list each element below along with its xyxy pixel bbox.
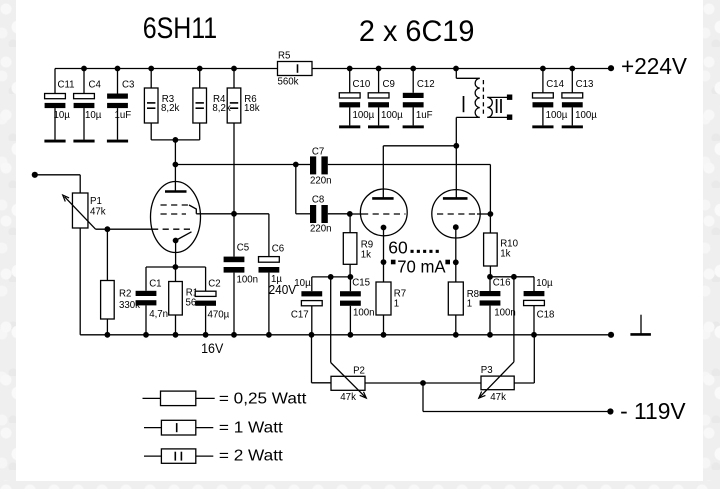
svg-text:= 0,25 Watt: = 0,25 Watt [219,390,307,407]
wire ground rail [80,334,611,336]
node rail R6 [231,66,237,72]
potentiometer P2 47k [331,376,365,390]
V3 cathode dot [453,224,459,230]
svg-text:C2: C2 [208,279,220,290]
svg-text:56: 56 [186,298,197,309]
capacitor C11 10u [54,69,56,94]
node rail C12 [410,66,416,72]
svg-text:P3: P3 [481,365,493,376]
capacitor C1 4,7n [145,267,147,291]
svg-text:16V: 16V [201,341,223,356]
svg-text:10µ: 10µ [294,278,311,289]
svg-text:C9: C9 [383,79,395,90]
node screen C5 [231,211,237,217]
wire C17 top to bias node A [311,277,313,291]
V1 cathode to grid1 diagonal [176,232,192,241]
svg-text:100µ: 100µ [575,110,597,121]
terminal input [32,172,38,178]
capacitor C12 1uF [412,69,414,93]
node gnd C17 [309,332,315,338]
wire grid B from C7 [477,213,490,215]
svg-text:C7: C7 [312,147,324,158]
tube V3 6C19 envelope [432,190,480,238]
svg-text:60: 60 [388,238,408,258]
V2 grid dashed [362,213,406,215]
resistor R2 330k [106,229,108,280]
node plates join [453,143,459,149]
svg-text:47k: 47k [90,207,106,218]
wire C7 out down to V3 grid [489,165,491,215]
capacitor C16 100n [489,277,491,291]
svg-text:100µ: 100µ [353,110,375,121]
V1 grid 2 dashed [161,213,187,215]
svg-text:1k: 1k [361,250,371,261]
transformer T1 primary lead from rail [455,69,457,79]
wire cathode bus C1 to C2 [146,266,206,268]
scan texture bottom edge [0,481,720,489]
legend 0,25 Watt resistor [143,397,161,399]
transformer T1 primary bottom lead [456,116,479,118]
svg-text:+224V: +224V [621,53,688,79]
terminal ground rail right [608,332,614,338]
V1 grid 3 dashed [161,204,192,206]
svg-text:47k: 47k [490,392,506,403]
node bias A C15 [348,274,354,280]
svg-text:470µ: 470µ [208,310,230,321]
svg-text:P2: P2 [353,366,365,377]
wire C7 C8 left tie [295,165,297,214]
svg-text:C1: C1 [149,279,161,290]
node P2 P3 junction [420,380,426,386]
wire V2 plate to V3 plate [383,145,456,147]
transformer T1 core dashed [482,80,484,117]
V1 cathode dot [173,238,179,244]
bullet 70mA right [445,260,450,265]
terminal secondary top [507,95,512,100]
svg-text:- 119V: - 119V [620,398,686,424]
node gnd C5 [231,332,237,338]
node gnd C15 [348,332,354,338]
node rail C3 [115,66,121,72]
svg-text:C12: C12 [417,79,435,90]
V2 plate bar [372,197,393,200]
tube V1 6SH11 envelope [151,182,201,253]
transformer T1 secondary top lead [487,96,509,98]
wire P1 wiper to V1 grid [96,228,152,230]
node gnd C2 [203,332,209,338]
capacitor C9 100u [378,69,380,93]
svg-text:C5: C5 [237,243,249,254]
P3 wiper from bias node B [513,277,515,362]
resistor R7 1 [376,282,391,315]
resistor R8 1 [448,282,463,315]
node gnd R8 [453,332,459,338]
svg-text:100µ: 100µ [381,110,403,121]
node gnd R7 [381,332,387,338]
V3 plate bar [443,197,468,200]
resistor R1 56 [175,267,177,282]
node gnd R1 [173,332,179,338]
node C7 C8 junction [293,162,299,168]
capacitor C13 100u [571,69,573,93]
svg-text:47k: 47k [340,392,356,403]
svg-text:8,2k: 8,2k [212,103,230,114]
capacitor C18 10u [533,277,535,291]
capacitor C17 10u [311,290,313,292]
svg-text:220n: 220n [310,176,332,187]
wire anode feed down to V1 plate [174,140,176,191]
capacitor C15 100n [349,277,351,291]
node bias A wiper tap [328,274,334,280]
resistor R6 18k 2W [233,69,235,89]
svg-text:2 x 6C19: 2 x 6C19 [359,15,475,48]
scan texture right edge [703,0,720,489]
V2 plate lead up [382,146,384,199]
capacitor C3 1uF [117,69,119,94]
node V2 cathode measure [381,259,387,265]
capacitor C4 10u [83,69,85,94]
svg-text:6SH11: 6SH11 [143,12,218,45]
svg-text:C4: C4 [89,80,102,91]
svg-text:R5: R5 [278,51,290,62]
wire gnd to P2 left [311,335,313,383]
resistor R4 8,2k 2W [199,69,201,89]
V2 cathode dot [381,225,387,231]
node R3R4 join [173,137,179,143]
wire R3 R4 bottom join [150,123,152,140]
V1 cathode lead down [175,241,177,268]
capacitor C8 220n [310,205,316,223]
wire +224V rail right section [312,68,611,70]
node V1 plate / coupling [173,162,179,168]
resistor R9 1k [349,214,351,233]
V1 grid 1 dashed [152,228,191,230]
svg-text:C3: C3 [122,80,134,91]
node gnd C18 P3 [531,332,537,338]
svg-text:560k: 560k [278,77,299,88]
node V2 grid [347,211,353,217]
node rail R4 [197,66,203,72]
svg-text:100n: 100n [353,308,375,319]
V1 screen bend to right [189,205,196,214]
potentiometer P3 47k [481,376,514,390]
wire P2 right to node [365,382,423,384]
terminal -119V [607,408,613,414]
svg-text:P1: P1 [90,196,102,207]
scan texture left edge [0,0,16,489]
svg-text:1uF: 1uF [416,110,433,121]
svg-text:70 mA: 70 mA [397,256,446,276]
svg-text:C6: C6 [272,244,284,255]
P2 wiper from bias node A [330,277,332,363]
wire input to P1 [35,174,80,176]
svg-text:100n: 100n [237,275,259,286]
legend 1 Watt resistor [144,427,161,429]
node gnd C6 [266,332,272,338]
svg-text:C16: C16 [493,278,511,289]
V3 grid dashed [437,213,477,215]
node rail C9 [376,66,382,72]
wire +224V rail left section [55,68,278,70]
tube V2 6C19 envelope [360,189,407,236]
node V3 grid [488,211,494,217]
svg-text:C8: C8 [312,195,324,206]
transformer T1 primary winding [475,78,480,117]
svg-text:220n: 220n [310,224,332,235]
legend 2 Watt resistor [144,455,161,457]
potentiometer P1 47k [72,193,88,228]
capacitor C10 100u [349,69,351,93]
resistor R3 8,2k 2W [150,69,152,89]
transformer T1 secondary bottom lead [487,116,509,118]
V3 cathode lead [455,227,457,282]
terminal secondary bottom [507,115,512,120]
node rail C13 [569,66,575,72]
svg-text:10µ: 10µ [536,278,553,289]
bullet 70mA left [391,260,396,265]
svg-text:= 2 Watt: = 2 Watt [219,448,283,465]
svg-text:C15: C15 [352,278,370,289]
svg-text:1: 1 [467,298,472,309]
node gnd C1 [143,332,149,338]
svg-text:C11: C11 [58,80,75,91]
svg-text:10µ: 10µ [85,110,102,121]
node bias B R10 [487,274,493,280]
node rail transformer [453,66,459,72]
capacitor C5 100n [233,214,235,257]
node rail R3 [148,66,154,72]
node bias B wiper tap [511,274,517,280]
transformer T1 secondary winding [487,97,492,117]
svg-text:10µ: 10µ [54,110,71,121]
svg-text:8,2k: 8,2k [161,103,179,114]
svg-text:C10: C10 [353,79,371,90]
wire bias node to -119V [422,383,424,412]
svg-text:4,7n: 4,7n [149,309,168,320]
capacitor C2 470u [205,267,207,291]
node gnd C16 [487,332,493,338]
svg-text:C18: C18 [537,310,555,321]
svg-text:240V: 240V [269,282,297,297]
wire P1 bottom to ground rail [79,228,81,335]
svg-text:R2: R2 [119,289,131,300]
svg-text:C13: C13 [576,79,594,90]
label primary I [463,96,465,112]
wire node to P3 left [423,382,481,384]
wire R6 down to screen node [233,123,235,214]
resistor R10 1k [489,214,491,233]
label secondary II [496,99,498,113]
svg-text:1k: 1k [500,248,510,259]
svg-text:1: 1 [394,298,399,309]
node R2 tap [105,226,111,232]
terminal +224V [608,65,614,71]
node V3 cathode measure [453,259,459,265]
svg-text:100n: 100n [494,308,516,319]
svg-text:= 1 Watt: = 1 Watt [219,419,283,436]
node rail C10 [347,66,353,72]
node rail C4 [81,66,87,72]
wire R10 bottom to bias node B [490,276,534,278]
svg-text:C14: C14 [546,79,564,90]
node cathode bus [173,264,179,270]
capacitor C6 1u [268,214,270,257]
V1 plate bar [165,190,187,193]
capacitor C7 220n [310,156,316,174]
wire P3 right up to ground [514,382,534,384]
V2 cathode lead [383,228,385,283]
svg-text:100µ: 100µ [546,110,568,121]
wire grid A from C8 [350,213,362,215]
capacitor C14 100u [542,69,544,93]
V3 plate lead and transformer primary drop [455,117,457,198]
resistor R5 560k 1W [278,62,313,76]
wire V1 plate node to C7 C8 junction [175,164,295,166]
svg-text:1uF: 1uF [115,110,132,121]
svg-text:18k: 18k [244,103,260,114]
node gnd R2 [105,332,111,338]
wire V1 screen to C5 C6 [196,213,269,215]
ground symbol [640,315,642,334]
svg-text:C17: C17 [291,309,309,320]
node rail C14 [540,66,546,72]
